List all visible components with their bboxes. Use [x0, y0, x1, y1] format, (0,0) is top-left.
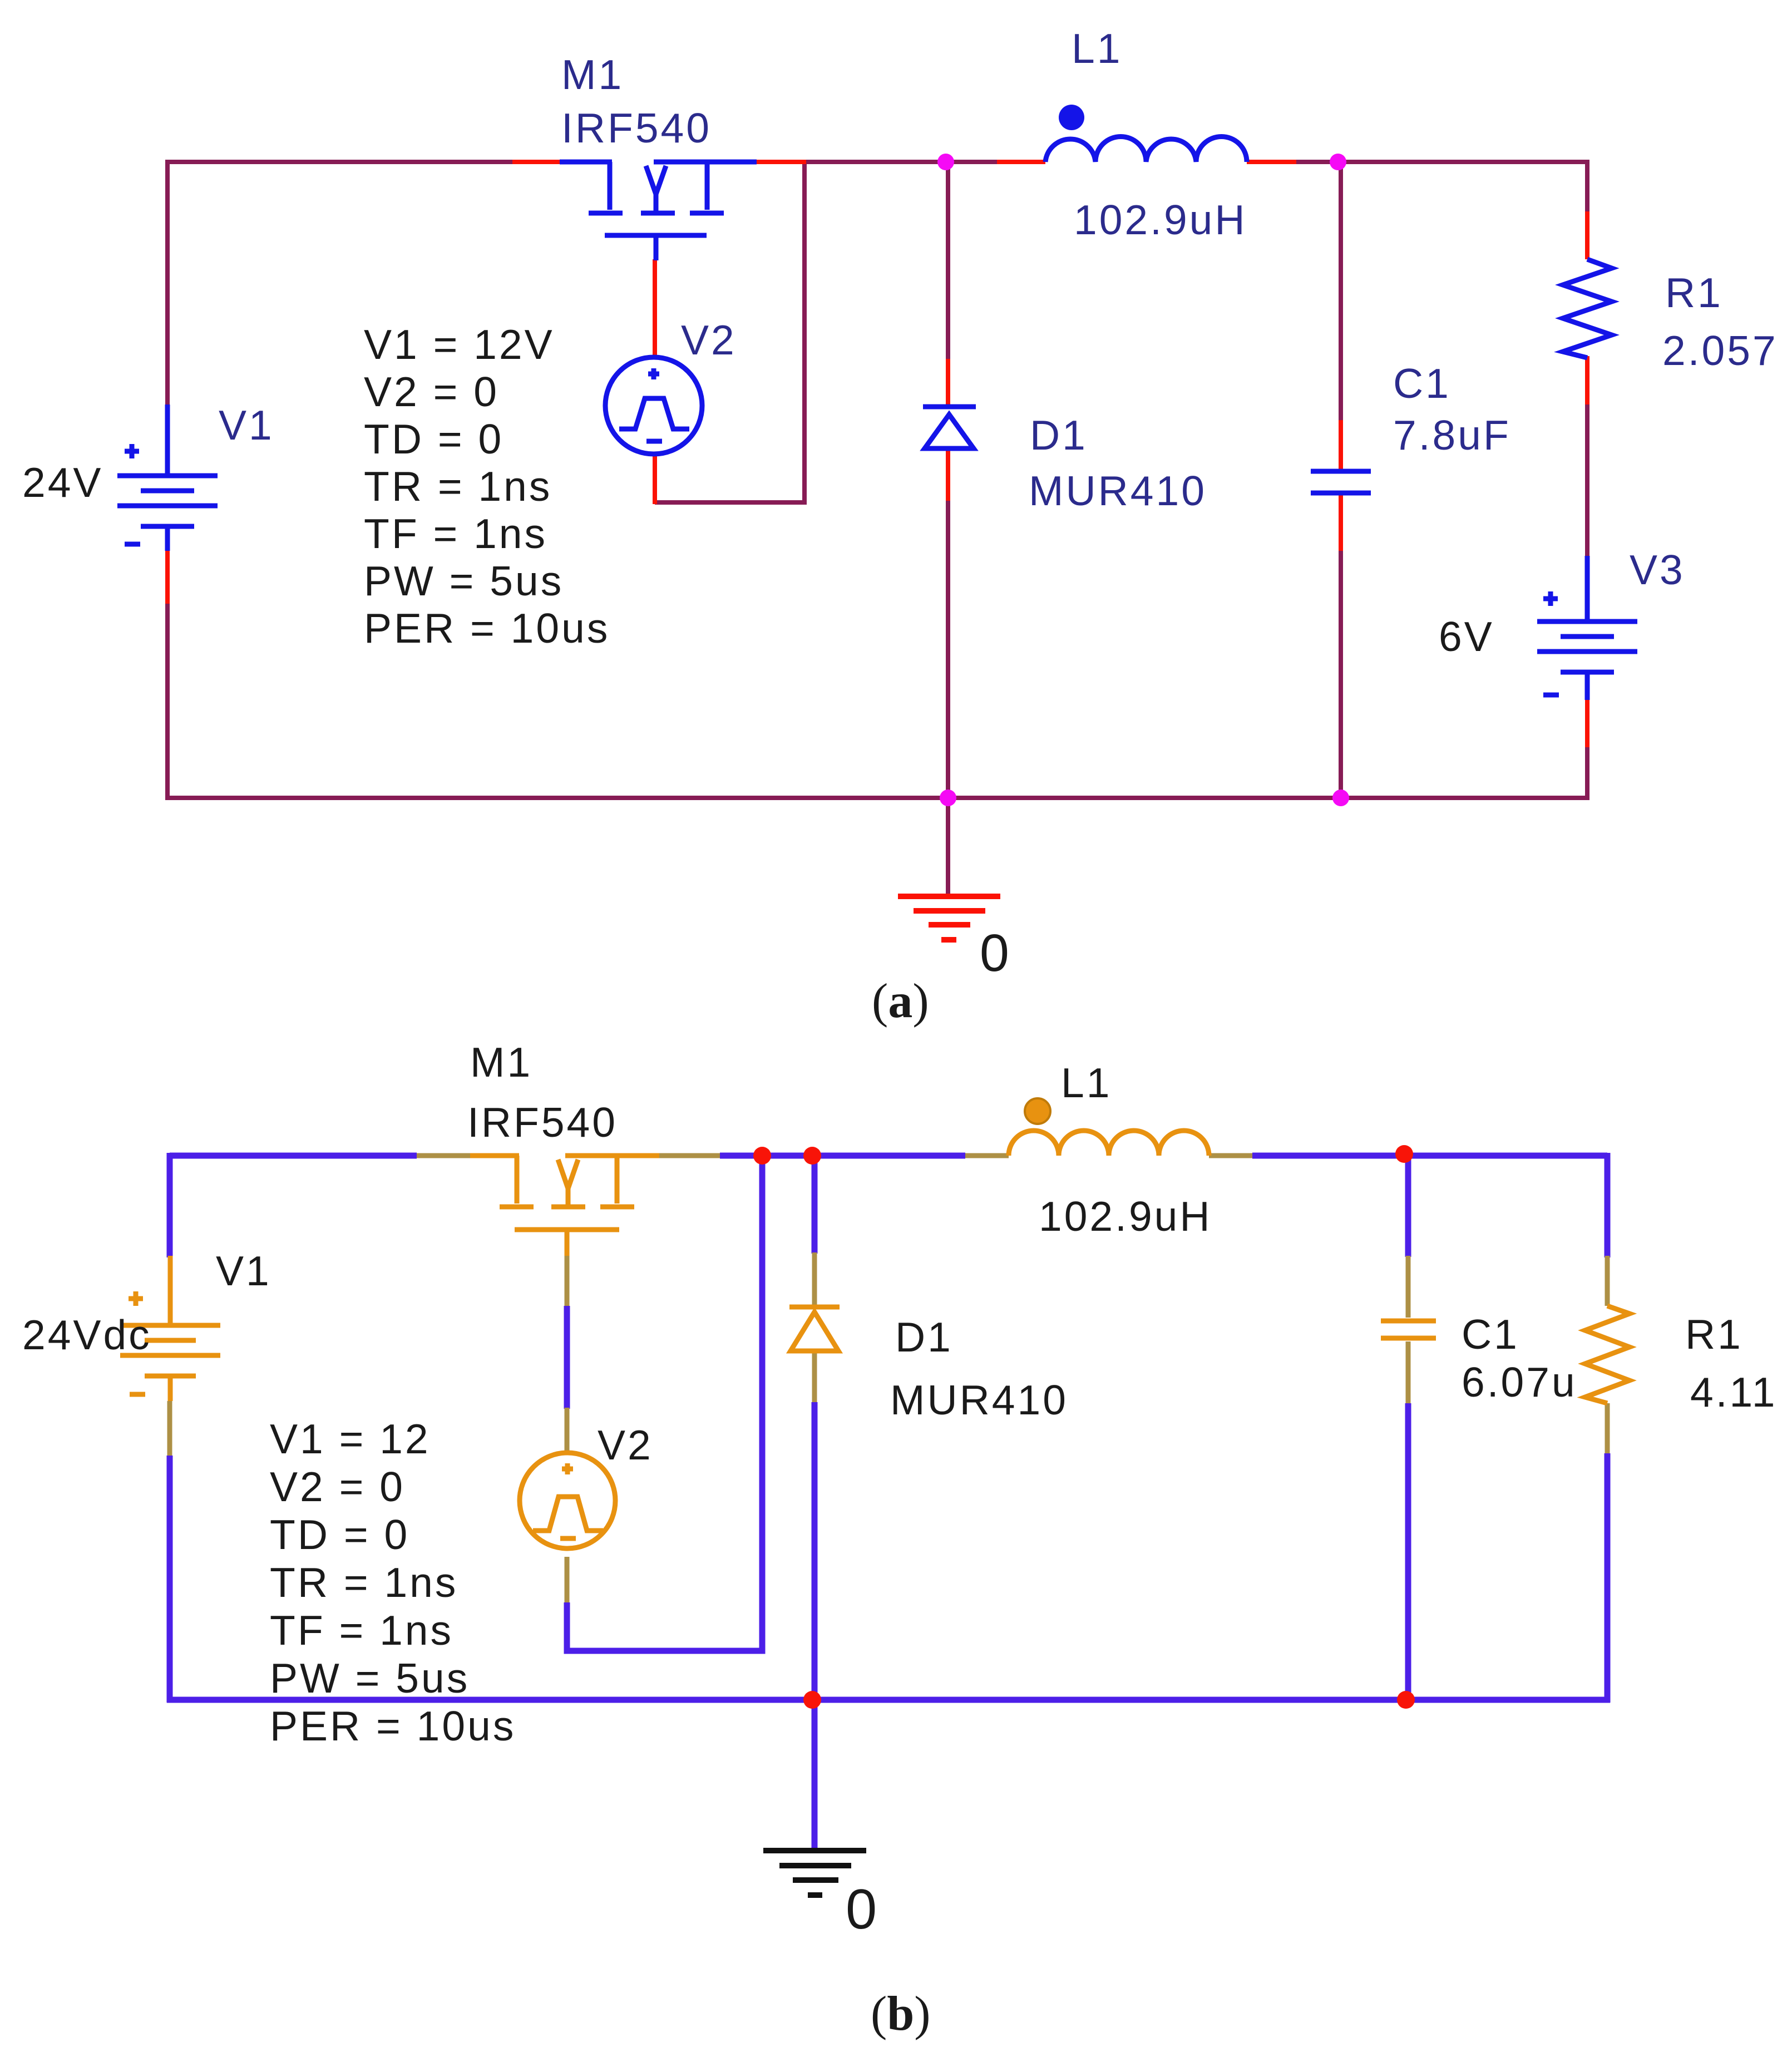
svg-text:PW = 5us: PW = 5us [364, 558, 564, 604]
svg-text:MUR410: MUR410 [890, 1377, 1068, 1423]
svg-text:L1: L1 [1072, 25, 1122, 72]
svg-text:TD = 0: TD = 0 [270, 1511, 409, 1558]
svg-text:IRF540: IRF540 [561, 105, 712, 151]
svg-text:D1: D1 [1030, 412, 1088, 458]
svg-text:TR = 1ns: TR = 1ns [364, 463, 552, 510]
svg-text:PER = 10us: PER = 10us [270, 1703, 516, 1749]
svg-text:R1: R1 [1665, 269, 1723, 316]
svg-text:4.11: 4.11 [1690, 1369, 1777, 1415]
svg-text:0: 0 [846, 1878, 879, 1941]
svg-text:7.8uF: 7.8uF [1393, 412, 1511, 458]
svg-text:V1: V1 [216, 1247, 271, 1294]
svg-text:TR = 1ns: TR = 1ns [270, 1559, 458, 1606]
svg-text:V2: V2 [598, 1422, 653, 1468]
svg-text:102.9uH: 102.9uH [1039, 1193, 1212, 1240]
svg-text:D1: D1 [895, 1314, 953, 1360]
svg-text:M1: M1 [561, 51, 624, 98]
svg-text:V1 = 12V: V1 = 12V [364, 321, 555, 368]
svg-text:C1: C1 [1462, 1311, 1519, 1358]
svg-text:V3: V3 [1630, 546, 1685, 593]
svg-text:V2 = 0: V2 = 0 [364, 368, 499, 415]
svg-text:V2 = 0: V2 = 0 [270, 1463, 405, 1510]
svg-text:102.9uH: 102.9uH [1074, 196, 1247, 243]
svg-text:IRF540: IRF540 [467, 1099, 618, 1146]
svg-text:PER = 10us: PER = 10us [364, 605, 610, 652]
svg-text:C1: C1 [1393, 360, 1451, 407]
svg-text:(b): (b) [871, 1987, 931, 2041]
svg-text:M1: M1 [470, 1039, 532, 1086]
svg-text:V1: V1 [219, 402, 274, 448]
svg-text:(a): (a) [872, 974, 929, 1028]
svg-text:TD = 0: TD = 0 [364, 416, 503, 462]
svg-text:24Vdc: 24Vdc [22, 1311, 152, 1358]
svg-text:R1: R1 [1685, 1311, 1743, 1358]
svg-text:0: 0 [980, 924, 1011, 983]
svg-text:MUR410: MUR410 [1029, 467, 1207, 514]
svg-text:V2: V2 [681, 317, 737, 363]
svg-text:V1 = 12: V1 = 12 [270, 1415, 431, 1462]
svg-text:24V: 24V [22, 459, 103, 506]
svg-text:6.07u: 6.07u [1462, 1359, 1577, 1405]
svg-text:TF = 1ns: TF = 1ns [364, 510, 547, 557]
svg-text:PW = 5us: PW = 5us [270, 1655, 470, 1701]
svg-text:TF = 1ns: TF = 1ns [270, 1607, 453, 1654]
svg-text:2.057: 2.057 [1662, 327, 1778, 374]
svg-text:L1: L1 [1061, 1059, 1112, 1106]
svg-text:6V: 6V [1439, 613, 1494, 660]
